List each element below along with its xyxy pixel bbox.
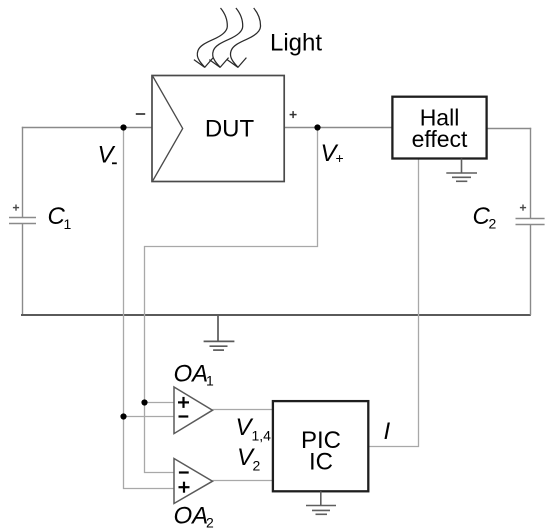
wire left vertical upper (to C1)	[22, 127, 24, 218]
C2 polarity plus	[520, 207, 526, 209]
svg-text:+: +	[336, 150, 344, 166]
svg-text:effect: effect	[412, 126, 468, 152]
DUT minus terminal mark	[136, 113, 145, 115]
wire OA1 output to PIC IC	[213, 409, 274, 411]
wire left vertical lower (C1 to bottom rail)	[22, 224, 24, 316]
svg-text:V: V	[98, 142, 116, 169]
svg-text:OA: OA	[174, 361, 209, 388]
OA1 minus input mark	[179, 415, 189, 417]
wire bottom rail	[21, 314, 531, 316]
wire Hall effect to right rail	[487, 128, 532, 130]
wire DUT output to Hall effect	[284, 127, 393, 129]
svg-text:2: 2	[206, 515, 214, 531]
C1 polarity plus	[13, 207, 19, 209]
capacitor C2	[516, 219, 545, 225]
PIC IC box	[273, 401, 368, 491]
svg-text:2: 2	[253, 458, 261, 474]
wire V- vertical branch	[124, 128, 175, 489]
wire top-left rail	[22, 127, 152, 129]
op-amp OA1	[174, 387, 213, 434]
node junction at OA1 non-inverting input	[141, 399, 147, 405]
wire right vertical upper (to C2)	[530, 128, 532, 219]
OA2 plus input mark	[179, 486, 190, 488]
light arrow 2	[209, 8, 242, 68]
node junction at OA1 inverting input	[120, 413, 126, 419]
svg-text:IC: IC	[309, 449, 333, 476]
Hall effect box	[392, 97, 486, 159]
svg-text:1: 1	[206, 373, 214, 389]
op-amp OA2	[174, 459, 213, 504]
OA1 plus input mark	[178, 401, 189, 403]
ground below Hall effect	[446, 159, 477, 182]
OA2 minus input mark	[179, 471, 189, 473]
svg-text:DUT: DUT	[205, 116, 255, 143]
ground below PIC IC	[306, 491, 336, 514]
node V+ junction on top rail	[314, 124, 320, 130]
node V- junction on top rail	[120, 124, 126, 130]
light arrow 3	[227, 8, 260, 68]
ground on bottom rail	[204, 315, 235, 350]
DUT internal triangle	[153, 77, 183, 181]
svg-text:Light: Light	[270, 30, 322, 57]
wire V+ branch to OA1 non-inverting input	[145, 402, 175, 404]
svg-text:OA: OA	[174, 503, 209, 530]
svg-text:I: I	[384, 418, 391, 445]
wire V+ branch (down, left, down to OA2 inverting input)	[145, 128, 318, 473]
wire V- branch to OA1 inverting input	[124, 416, 175, 418]
wire right vertical lower (C2 to bottom rail)	[530, 225, 532, 316]
svg-text:2: 2	[489, 216, 497, 232]
wire Hall effect bottom to PIC IC right (current I)	[369, 159, 419, 447]
DUT plus terminal mark	[290, 114, 297, 116]
DUT box	[152, 76, 284, 182]
capacitor C1	[9, 218, 36, 224]
svg-text:1: 1	[64, 216, 72, 232]
wire OA2 output to PIC IC	[213, 480, 274, 482]
svg-text:1,4: 1,4	[252, 428, 272, 444]
light arrow 1	[194, 8, 227, 68]
